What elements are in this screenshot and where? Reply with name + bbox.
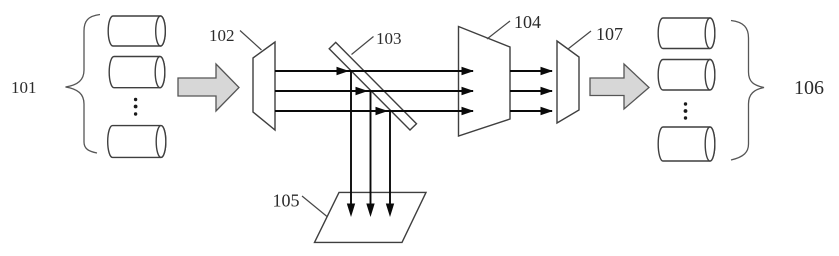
arrowhead beam 2 into 104 <box>462 87 475 95</box>
cylinder output 3 <box>658 127 715 161</box>
arrowhead beam 2 at splitter <box>356 87 369 95</box>
cylinder output 1 <box>658 18 715 49</box>
svg-text:103: 103 <box>376 29 402 48</box>
arrowhead drop 2 <box>366 204 374 218</box>
leader line 107 <box>568 31 591 49</box>
block arrow left <box>178 64 239 111</box>
leader line 102 <box>240 31 262 51</box>
svg-text:101: 101 <box>11 78 37 97</box>
arrowhead beam 1 into 104 <box>462 67 475 75</box>
cylinder input 2 <box>109 57 165 88</box>
svg-text:104: 104 <box>514 12 541 32</box>
wire out 3 <box>510 110 552 112</box>
arrowhead drop 3 <box>386 204 394 218</box>
svg-text:105: 105 <box>273 191 300 211</box>
leader line 104 <box>487 21 510 39</box>
wire out 2 <box>510 90 552 92</box>
cylinder output 2 <box>658 59 715 90</box>
leader line 105 <box>302 196 327 217</box>
arrowhead drop 1 <box>347 204 355 218</box>
right brace <box>731 21 764 161</box>
arrowhead beam 3 into 104 <box>462 107 475 115</box>
cylinder input 1 <box>108 16 165 46</box>
beam splitter 103 <box>329 42 416 130</box>
ellipsis dots left <box>134 98 138 116</box>
ellipsis dots right <box>684 102 688 119</box>
left brace <box>66 15 101 154</box>
leader line 103 <box>352 37 374 55</box>
arrowhead beam 3 at splitter <box>376 107 389 115</box>
arrowhead out 3 <box>541 107 554 115</box>
block arrow right <box>590 64 649 109</box>
wire out 1 <box>510 70 552 72</box>
wire drop 1 <box>350 71 352 204</box>
arrowhead out 1 <box>541 67 554 75</box>
wire beam 1 <box>275 70 473 72</box>
svg-text:106: 106 <box>794 77 824 99</box>
wire beam 3 <box>275 110 473 112</box>
wire drop 3 <box>389 111 391 204</box>
svg-text:107: 107 <box>596 24 623 44</box>
wire beam 2 <box>275 90 473 92</box>
multiplexer 102 <box>253 42 275 130</box>
combiner 107 <box>557 41 579 123</box>
arrowhead out 2 <box>541 87 554 95</box>
detector plane 105 <box>315 192 427 242</box>
arrowhead beam 1 at splitter <box>337 67 350 75</box>
demultiplexer 104 <box>459 27 511 137</box>
svg-text:102: 102 <box>209 26 235 45</box>
cylinder input 3 <box>108 126 166 158</box>
wire drop 2 <box>370 91 372 204</box>
